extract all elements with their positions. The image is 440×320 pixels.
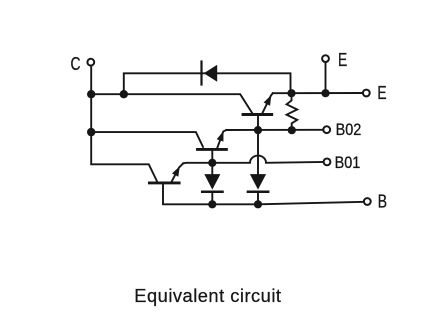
svg-text:C: C — [71, 54, 81, 74]
svg-text:B01: B01 — [335, 154, 361, 172]
svg-text:B02: B02 — [336, 121, 362, 139]
svg-text:Equivalent circuit: Equivalent circuit — [134, 285, 281, 306]
svg-text:B: B — [378, 192, 387, 212]
svg-text:E: E — [338, 50, 347, 70]
svg-text:E: E — [377, 83, 386, 103]
